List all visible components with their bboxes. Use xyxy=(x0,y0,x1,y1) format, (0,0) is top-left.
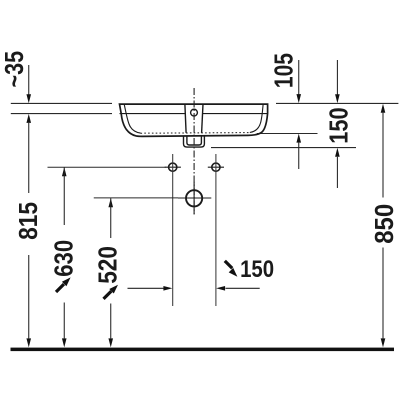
overflow channel left wall xyxy=(185,104,186,133)
dimension 150 horizontal (hole spacing) xyxy=(128,256,275,291)
mounting hole left xyxy=(165,163,181,171)
svg-text:150: 150 xyxy=(240,256,274,283)
floor line xyxy=(11,348,395,352)
wire: wall datum line lower left xyxy=(11,113,112,115)
dimension ~35 (rim above datum) xyxy=(1,51,31,103)
wire: basin underside level extension line (105 below rim) xyxy=(257,133,318,135)
overflow channel right wall xyxy=(202,104,203,133)
washbasin rim band lower edge right segment xyxy=(203,113,268,115)
dimension 850 (rim to floor) xyxy=(371,104,399,348)
wire: mounting hole centerline right vertical xyxy=(215,154,217,306)
drain outlet cup inner wall xyxy=(187,136,202,145)
svg-text:~35: ~35 xyxy=(1,51,29,88)
washbasin outer profile xyxy=(120,104,268,136)
wire: extension line at siphon height (520 level) xyxy=(94,197,178,199)
washbasin inner bowl bottom (hidden, dotted) xyxy=(141,132,250,135)
svg-text:850: 850 xyxy=(371,204,399,244)
svg-text:105: 105 xyxy=(270,53,298,88)
dimension 520 (siphon to floor) xyxy=(94,198,122,347)
washbasin rim band lower edge left segment xyxy=(120,113,185,115)
washbasin inner bowl left wall xyxy=(124,104,140,133)
svg-text:815: 815 xyxy=(15,202,43,240)
dimension 150 vertical (rim to drain level) xyxy=(326,60,354,188)
svg-text:520: 520 xyxy=(94,246,122,284)
siphon outlet circle with crosshair xyxy=(178,182,211,215)
dimension 630 (mounting holes to floor) xyxy=(51,167,79,347)
svg-text:630: 630 xyxy=(51,240,79,277)
wire: wall datum line upper left xyxy=(11,102,112,104)
washbasin inner bowl right wall xyxy=(250,104,263,132)
dimension 815 (datum to floor) xyxy=(15,114,43,348)
wire: mounting hole centerline left vertical xyxy=(172,154,174,306)
wire: drain level extension line (150 below rim) xyxy=(211,147,356,149)
drain outlet cup outer wall xyxy=(184,136,205,148)
wire: rim level extension line right xyxy=(276,102,398,104)
wire: extension line at mounting-hole height (630 level) xyxy=(48,166,167,168)
svg-text:150: 150 xyxy=(326,107,354,143)
vertical centerline (dash-dot) xyxy=(193,88,195,214)
dimension 105 (rim to basin underside) xyxy=(270,53,301,169)
mounting hole right xyxy=(208,163,224,171)
overflow hole xyxy=(191,109,198,116)
